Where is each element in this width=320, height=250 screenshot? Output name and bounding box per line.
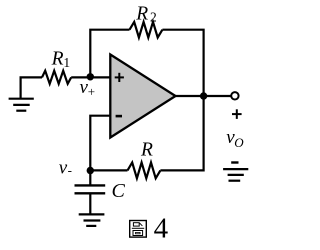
resistor R2	[130, 22, 163, 38]
op-amp plus input symbol	[115, 73, 124, 82]
wire: output node down to bottom feedback	[160, 96, 203, 170]
svg-text:R: R	[140, 139, 153, 160]
label - (output polarity)	[231, 161, 238, 163]
ground (output reference)	[223, 169, 248, 181]
caption 圖 (figure) drawn as strokes	[130, 221, 147, 238]
wire: capacitor to ground	[89, 193, 91, 214]
svg-text:R: R	[135, 3, 148, 24]
terminal vO (open circle)	[231, 92, 238, 99]
node output	[200, 92, 207, 99]
label + (output polarity)	[232, 109, 242, 119]
op-amp U1	[110, 55, 175, 138]
node v-	[87, 167, 94, 174]
wire: op-amp output	[176, 95, 231, 97]
svg-text:C: C	[112, 180, 126, 202]
wire: R2 to right vertical, down to output node	[162, 30, 203, 96]
node v+	[87, 73, 94, 80]
svg-text:1: 1	[63, 55, 70, 70]
resistor R1	[42, 71, 71, 84]
wire: v- node down to capacitor	[89, 171, 91, 186]
svg-text:v: v	[59, 157, 68, 178]
resistor R (bottom feedback)	[128, 163, 161, 179]
svg-text:4: 4	[154, 213, 169, 245]
wire: op-amp minus input to v- column	[90, 116, 110, 171]
svg-text:R: R	[51, 48, 64, 69]
ground (below capacitor)	[79, 214, 105, 226]
svg-text:-: -	[68, 163, 72, 178]
svg-text:+: +	[88, 84, 95, 99]
wire: v+ node up to R2	[90, 30, 129, 77]
wire: R to v- node	[90, 169, 127, 171]
svg-text:2: 2	[150, 10, 157, 25]
wire: R1 to op-amp plus input	[71, 76, 110, 78]
ground (input, left)	[9, 77, 34, 110]
capacitor C	[75, 185, 106, 193]
svg-text:O: O	[234, 135, 244, 150]
op-amp minus input symbol	[116, 115, 122, 118]
wire: input from ground to R1	[20, 76, 43, 78]
